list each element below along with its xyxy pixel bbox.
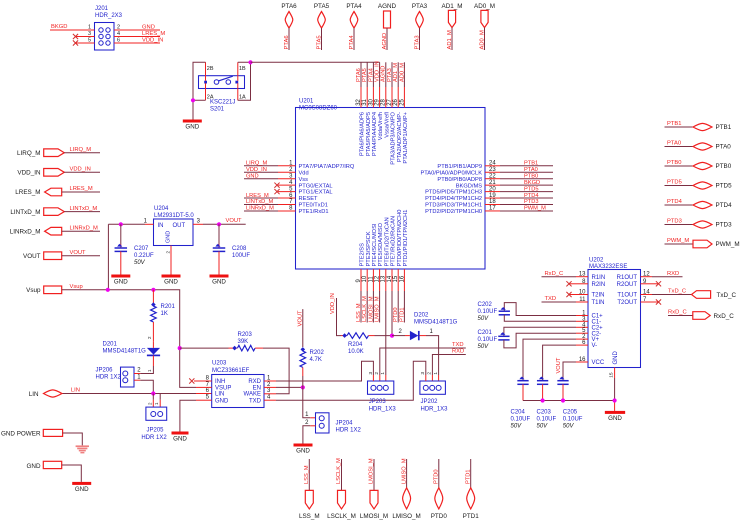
svg-text:Vssa/Vrefl: Vssa/Vrefl: [384, 112, 390, 138]
svg-text:PTE1/RxD1: PTE1/RxD1: [299, 209, 329, 215]
svg-text:HDR_1X3: HDR_1X3: [421, 406, 449, 412]
svg-text:U202: U202: [589, 258, 604, 264]
capacitor C208 100UF: [213, 224, 251, 274]
svg-text:VOUT: VOUT: [226, 218, 243, 224]
U202 left pins: [576, 272, 605, 366]
svg-text:C208: C208: [232, 246, 247, 252]
wire LRES_M from J201 pin 4: [114, 31, 165, 37]
svg-text:LRES_M: LRES_M: [70, 186, 93, 192]
wire/pin U201 top pin 32 net PTA6: [356, 62, 366, 156]
svg-text:WAKE: WAKE: [244, 392, 261, 398]
svg-text:PTD1/PID1/TPM2CH1: PTD1/PID1/TPM2CH1: [403, 210, 409, 267]
svg-text:GND: GND: [608, 415, 622, 422]
svg-text:GND: GND: [212, 279, 226, 286]
svg-text:AD1_M: AD1_M: [393, 63, 399, 82]
svg-text:15: 15: [393, 275, 399, 282]
port flag AD0_M (top): [474, 3, 495, 50]
wire LIN flag to U203 LIN pin: [62, 393, 212, 395]
wire/pin U201 top pin 26 net AD1_M: [393, 62, 403, 162]
svg-text:PTA0: PTA0: [524, 167, 538, 173]
svg-text:PTD1: PTD1: [463, 513, 480, 520]
svg-text:PTA4/PIA4/ADP4: PTA4/PIA4/ADP4: [372, 112, 378, 156]
svg-text:MC9S08DZ60: MC9S08DZ60: [299, 106, 338, 112]
wire Vsup to U204 IN pin 1: [108, 218, 153, 289]
svg-text:1K: 1K: [161, 311, 168, 317]
port flag PTD1 (bottom): [463, 459, 480, 520]
svg-text:LMOSI_M: LMOSI_M: [360, 513, 388, 520]
svg-text:RxD_C: RxD_C: [545, 271, 564, 277]
svg-text:D202: D202: [414, 313, 429, 319]
svg-text:LMISO_M: LMISO_M: [375, 296, 381, 322]
wire U203 TXD pin 4 to JP202 pin 3: [264, 361, 426, 400]
wire U203 RXD pin 1 to JP203 pin 3: [264, 361, 373, 381]
svg-text:C204: C204: [511, 410, 526, 416]
junction S201 right: [248, 60, 252, 64]
svg-text:GND: GND: [114, 279, 128, 286]
svg-text:PTA4: PTA4: [349, 35, 355, 50]
svg-text:Vdda/Vrefh: Vdda/Vrefh: [378, 112, 384, 140]
svg-text:MMSD4148T1G: MMSD4148T1G: [414, 320, 458, 326]
svg-text:VOUT: VOUT: [556, 357, 562, 373]
svg-text:PTB1/PIB1/ADP9: PTB1/PIB1/ADP9: [437, 164, 482, 170]
svg-text:Vss: Vss: [299, 177, 309, 183]
ground under U204: [162, 275, 181, 286]
svg-text:GND: GND: [142, 24, 155, 30]
svg-text:PTD5: PTD5: [667, 180, 682, 186]
svg-text:39K: 39K: [238, 339, 249, 345]
wire net TXD to U202 T1IN: [542, 296, 577, 302]
svg-text:LMISO_M: LMISO_M: [401, 458, 407, 484]
wire R203 to U203 WAKE pin 3: [263, 348, 289, 394]
junction VSUP / R203: [178, 346, 182, 350]
port flag AD1_M (top): [442, 3, 463, 50]
diode D202 MMSD4148T1G: [392, 313, 458, 341]
ground under S201: [183, 120, 202, 131]
svg-text:T1IN: T1IN: [592, 300, 605, 306]
wire U202 V+ to C204: [523, 339, 576, 380]
svg-text:PTA0: PTA0: [667, 141, 681, 147]
port flag PTD3 (right): [665, 219, 733, 229]
svg-text:TXD: TXD: [452, 342, 464, 348]
port flag PTA4 (top): [346, 3, 362, 50]
wire/pin U201 top pin 29 net VDD_IN: [375, 61, 385, 140]
svg-text:50V: 50V: [511, 424, 523, 430]
port flag AGND (top): [378, 3, 397, 50]
svg-text:50V: 50V: [134, 260, 146, 266]
resistor R204 10.0K: [341, 333, 392, 355]
connector J201 header 2x3: [95, 6, 123, 50]
junction LIN / JP206 / JP205: [151, 391, 155, 395]
svg-text:PTB1: PTB1: [716, 124, 732, 131]
wire/pin U201 bottom pin 13: [381, 217, 391, 291]
svg-text:PTA3/ADP3/ACMPO: PTA3/ADP3/ACMPO: [391, 111, 397, 164]
junction GND bus / U202 GND: [613, 398, 617, 402]
port flag LIN (left): [29, 387, 80, 397]
wire/pin U201 left pin 6 net LRES_M: [244, 193, 318, 202]
svg-text:V-: V-: [592, 343, 598, 349]
wire net TXD (to JP203 pin 2): [380, 342, 466, 381]
svg-text:PTD4: PTD4: [524, 193, 539, 199]
svg-text:AD0_M: AD0_M: [479, 30, 485, 50]
svg-text:MMSD4148T1G: MMSD4148T1G: [103, 349, 147, 355]
port flag LINRxD_M (left): [10, 225, 100, 235]
svg-text:PTE3/SPSCK: PTE3/SPSCK: [366, 231, 372, 266]
ground under U203: [172, 432, 189, 443]
svg-text:R201: R201: [161, 304, 176, 310]
svg-text:LIRQ_M: LIRQ_M: [17, 150, 40, 157]
svg-text:LSS_M: LSS_M: [304, 465, 310, 484]
svg-text:VDD_IN: VDD_IN: [142, 37, 163, 43]
wire U202 R1OUT net RXD: [652, 271, 683, 277]
svg-text:U201: U201: [299, 99, 314, 105]
diode D201 MMSD4148T1G: [103, 341, 161, 372]
wire/pin U201 bottom pin 15 net PTD0: [393, 210, 403, 323]
svg-text:LMISO_M: LMISO_M: [392, 513, 420, 520]
port flag PTD5 (right): [665, 180, 733, 190]
ground under GND flag: [72, 482, 91, 493]
U202 right pins: [617, 272, 652, 306]
svg-text:PWM_M: PWM_M: [524, 206, 546, 212]
no-connect X on U202 R2OUT: [652, 281, 661, 286]
svg-text:PTG1/EXTAL: PTG1/EXTAL: [299, 190, 333, 196]
svg-text:18: 18: [489, 199, 496, 205]
svg-text:PWM_M: PWM_M: [667, 238, 689, 244]
svg-text:TxD_C: TxD_C: [668, 288, 686, 294]
wire/pin U201 right pin 19 net PTD4: [425, 193, 553, 202]
svg-text:0.10UF: 0.10UF: [511, 417, 531, 423]
wire S201 to VDD_IN column of U201: [251, 61, 380, 63]
port flag VDD_IN (left): [17, 167, 100, 177]
svg-text:PTA6: PTA6: [284, 35, 290, 49]
svg-text:PTD3: PTD3: [716, 222, 733, 229]
wire Vsup rail: [62, 290, 180, 348]
port flag RxD_C (right): [693, 312, 734, 320]
svg-text:10: 10: [579, 290, 586, 296]
svg-text:1: 1: [88, 25, 91, 31]
svg-text:PTA3: PTA3: [414, 35, 420, 49]
wire/pin U201 bottom pin 9 net LSS_M: [356, 243, 366, 323]
svg-text:PTD4/PID4/TPM1CH2: PTD4/PID4/TPM1CH2: [425, 196, 482, 202]
svg-text:AD1_M: AD1_M: [447, 30, 453, 50]
svg-text:OUT: OUT: [173, 223, 186, 229]
svg-text:PTD0/PID0/TPM2CH0: PTD0/PID0/TPM2CH0: [397, 210, 403, 267]
resistor R203 39K: [180, 332, 263, 351]
svg-text:PTE4/SCL/MOSI: PTE4/SCL/MOSI: [372, 223, 378, 266]
junction R204 / D202 anode / U201 pin 14: [390, 334, 394, 338]
svg-text:LSCLK_M: LSCLK_M: [336, 458, 342, 484]
svg-text:GND: GND: [27, 463, 41, 470]
wire/pin U201 top pin 27 net PTA3: [387, 62, 397, 164]
svg-text:AD0_M: AD0_M: [399, 63, 405, 82]
svg-text:GND: GND: [166, 231, 172, 243]
svg-text:4.7K: 4.7K: [310, 357, 322, 363]
svg-text:1: 1: [433, 372, 439, 375]
wire/pin U201 right pin 21 net BKGD: [456, 180, 553, 189]
svg-text:BKGD/MS: BKGD/MS: [456, 183, 482, 189]
wire/pin U201 bottom pin 12 net LMISO_M: [375, 222, 385, 322]
svg-text:PTE7/RxD2/RxCAN: PTE7/RxD2/RxCAN: [391, 216, 397, 267]
svg-text:JP206: JP206: [96, 368, 114, 374]
svg-text:AGND: AGND: [378, 3, 397, 10]
svg-text:LIN: LIN: [29, 391, 39, 398]
svg-text:PTD3: PTD3: [667, 219, 682, 225]
wire GND from J201 pin 2: [114, 24, 160, 30]
wire net RxD_C flag stub: [668, 309, 693, 315]
svg-text:C207: C207: [134, 246, 149, 252]
svg-text:T2OUT: T2OUT: [617, 300, 637, 306]
svg-text:32: 32: [356, 98, 362, 105]
svg-text:0.10UF: 0.10UF: [537, 417, 557, 423]
svg-text:TXD: TXD: [545, 296, 557, 302]
junction C203 bus: [541, 398, 545, 402]
svg-text:1A: 1A: [239, 94, 246, 100]
svg-text:LRES_M: LRES_M: [15, 189, 40, 196]
svg-text:C203: C203: [537, 410, 552, 416]
svg-text:PTB0/PIB0/ADP8: PTB0/PIB0/ADP8: [437, 177, 482, 183]
svg-text:26: 26: [393, 98, 399, 105]
junction Vsup / U204 riser: [106, 288, 110, 292]
svg-text:GND: GND: [613, 351, 619, 365]
svg-text:PTE2/SS: PTE2/SS: [360, 243, 366, 267]
svg-text:PTA6: PTA6: [281, 3, 297, 10]
svg-text:14: 14: [643, 290, 650, 296]
svg-text:LINTxD_M: LINTxD_M: [10, 209, 40, 216]
svg-text:PTD1: PTD1: [399, 307, 405, 322]
svg-text:PTA3: PTA3: [387, 68, 393, 82]
wire U202 VCC net VOUT to C205: [556, 357, 576, 380]
svg-text:RxD_C: RxD_C: [714, 313, 735, 320]
svg-text:HDR 1X2: HDR 1X2: [141, 435, 167, 441]
svg-text:LIRQ_M: LIRQ_M: [246, 161, 267, 167]
wire JP206 pin 1 to LIN net: [140, 380, 153, 393]
svg-text:VDD_IN: VDD_IN: [246, 167, 267, 173]
wire JP204 pin 2 to ground: [303, 426, 316, 444]
wire/pin U201 right pin 22 net PTB0: [437, 173, 553, 182]
no-connect X on U203 INH pin 8: [189, 378, 212, 383]
wire S201 right loop: [238, 62, 251, 100]
svg-text:10.0K: 10.0K: [348, 349, 364, 355]
svg-text:VOUT: VOUT: [298, 310, 304, 327]
svg-text:HDR_2X3: HDR_2X3: [95, 13, 123, 19]
wire/pin U201 right pin 24 net PTB1: [437, 161, 553, 170]
svg-text:16: 16: [579, 357, 586, 363]
wire/pin U201 bottom pin 10 net LSCLK_M: [362, 231, 372, 322]
port flag LINTxD_M (left): [10, 206, 100, 216]
svg-text:PTA1/ADP1/ACMP+: PTA1/ADP1/ACMP+: [403, 111, 409, 163]
resistor R201 1K: [147, 290, 175, 342]
svg-text:LIRQ_M: LIRQ_M: [70, 147, 92, 153]
junction VOUT / C208: [217, 222, 221, 226]
port flag PTB0 (right): [665, 160, 732, 170]
ic U201 MC9S08DZ60: [296, 99, 486, 270]
svg-text:VOUT: VOUT: [23, 253, 41, 260]
wire U203 GND pin 5 to ground: [180, 400, 212, 431]
svg-text:C205: C205: [563, 410, 578, 416]
svg-text:PTA0: PTA0: [716, 144, 732, 151]
svg-text:HDR 1X2: HDR 1X2: [336, 428, 362, 434]
svg-text:VSUP: VSUP: [215, 386, 231, 392]
port flag LMISO_M (bottom): [392, 458, 420, 520]
svg-text:LRES_M: LRES_M: [142, 31, 165, 37]
wire VDD_IN from J201 pin 6: [114, 37, 163, 43]
capacitor C203 0.10UF 50V: [537, 377, 557, 430]
svg-text:R2OUT: R2OUT: [617, 282, 638, 288]
capacitor C205 0.10UF 50V: [557, 377, 582, 430]
svg-text:PTD5: PTD5: [524, 186, 539, 192]
svg-text:LINTxD_M: LINTxD_M: [70, 206, 98, 212]
svg-text:1: 1: [380, 372, 386, 375]
svg-text:3: 3: [420, 372, 426, 375]
wire capacitor ground bus: [523, 400, 615, 402]
svg-text:50V: 50V: [563, 424, 575, 430]
J201 pin numbers: [88, 25, 120, 44]
svg-text:LMOSI_M: LMOSI_M: [369, 458, 375, 484]
capacitor C207 0.22UF 50V: [115, 224, 154, 274]
svg-text:R203: R203: [238, 332, 253, 338]
wire D201 cathode to JP206 pin 2: [140, 366, 153, 374]
connector JP205 HDR 1X2: [141, 407, 167, 441]
svg-text:LIN: LIN: [215, 392, 224, 398]
svg-text:J201: J201: [95, 6, 109, 12]
svg-text:PTD1: PTD1: [465, 469, 471, 484]
no-connect X on U202 T2IN: [566, 292, 576, 297]
svg-text:PTE5/SDA/MISO: PTE5/SDA/MISO: [378, 222, 384, 266]
svg-text:PTD4: PTD4: [716, 202, 733, 209]
port flag PTB1 (right): [665, 121, 732, 131]
wire/pin U201 right pin 23 net PTA0: [420, 167, 553, 176]
svg-text:PTA3: PTA3: [412, 3, 428, 10]
connector JP204 HDR 1X2: [305, 412, 361, 434]
svg-text:PTB0: PTB0: [667, 160, 682, 166]
connector JP203 HDR_1X3: [368, 372, 397, 413]
svg-text:13: 13: [579, 272, 586, 278]
svg-text:2: 2: [427, 372, 433, 375]
port flag PTA0 (right): [665, 141, 732, 151]
svg-text:15: 15: [608, 372, 614, 378]
svg-text:16: 16: [399, 275, 405, 282]
svg-text:RXD: RXD: [248, 379, 261, 385]
svg-text:12: 12: [375, 275, 381, 282]
svg-text:Vsup: Vsup: [70, 284, 83, 290]
wire U202 V- to C203: [543, 345, 576, 380]
svg-text:D201: D201: [103, 342, 118, 348]
svg-text:19: 19: [489, 193, 496, 199]
wire net RxD_C to U202 R1IN: [542, 271, 577, 277]
svg-text:30: 30: [368, 98, 374, 105]
svg-text:3: 3: [368, 372, 374, 375]
wire/pin U201 right pin 17 net PWM_M: [425, 206, 553, 215]
svg-text:PTG0/EXTAL: PTG0/EXTAL: [299, 183, 333, 189]
svg-text:LMOSI_M: LMOSI_M: [368, 296, 374, 322]
svg-text:C201: C201: [478, 330, 493, 336]
junction U204 input / C207: [119, 222, 123, 226]
svg-text:U204: U204: [154, 206, 169, 212]
svg-text:HDR_1X3: HDR_1X3: [369, 406, 397, 412]
regulator U204 LM2931DT-5.0: [154, 206, 195, 246]
no-connect X on U202 T2OUT: [652, 299, 661, 304]
ground under C208: [210, 275, 229, 286]
svg-text:JP204: JP204: [336, 421, 354, 427]
svg-text:29: 29: [375, 98, 381, 105]
svg-text:GND: GND: [185, 124, 199, 131]
svg-text:T1OUT: T1OUT: [617, 293, 637, 299]
svg-text:T2IN: T2IN: [592, 293, 605, 299]
svg-text:C202: C202: [478, 302, 493, 308]
svg-text:HDR 1X2: HDR 1X2: [96, 375, 122, 381]
svg-text:PTD5/PID5/TPM1CH3: PTD5/PID5/TPM1CH3: [425, 190, 482, 196]
wire/pin U201 top pin 25 net AD0_M: [399, 62, 409, 163]
power ground symbol (stepped): [76, 445, 89, 453]
svg-text:JP203: JP203: [369, 399, 387, 405]
svg-text:R204: R204: [348, 342, 363, 348]
svg-text:LSS_M: LSS_M: [299, 513, 320, 520]
svg-text:VDD_IN: VDD_IN: [17, 170, 41, 177]
svg-text:PTD2/PID2/TPM1CH0: PTD2/PID2/TPM1CH0: [425, 209, 482, 215]
svg-text:PTA5: PTA5: [314, 3, 330, 10]
ground under JP204: [294, 444, 313, 455]
svg-text:24: 24: [489, 161, 496, 167]
wire S201 left loop to GND: [193, 62, 206, 119]
wire VSUP net to U203 pin 7: [180, 348, 212, 387]
svg-text:RXD: RXD: [452, 348, 464, 354]
svg-text:PTA7/PIA7/ADP7/IRQ: PTA7/PIA7/ADP7/IRQ: [299, 164, 355, 170]
svg-text:50V: 50V: [478, 316, 490, 322]
wire/pin U201 right pin 20 net PTD5: [425, 186, 553, 195]
svg-text:TxD_C: TxD_C: [717, 292, 737, 299]
svg-text:VDD_IN: VDD_IN: [70, 167, 91, 173]
svg-text:PTE0/TxD1: PTE0/TxD1: [299, 203, 328, 209]
svg-text:KSC221J: KSC221J: [210, 100, 235, 106]
svg-text:0.10UF: 0.10UF: [478, 337, 498, 343]
wire/pin U201 left pin 1 net LIRQ_M: [244, 161, 355, 170]
connector JP206 HDR 1X2: [96, 367, 142, 387]
svg-text:BKGD: BKGD: [51, 24, 67, 30]
wire/pin U201 bottom pin 11 net LMOSI_M: [368, 223, 378, 322]
svg-text:PTD3/PID3/TPM1CH1: PTD3/PID3/TPM1CH1: [425, 203, 482, 209]
connector JP202 HDR_1X3: [420, 372, 448, 413]
svg-text:0.22UF: 0.22UF: [134, 253, 154, 259]
svg-text:VDD_IN: VDD_IN: [375, 61, 381, 82]
no-connect X on J201 pin 5: [73, 40, 95, 45]
port flag LIRQ_M (left): [17, 147, 100, 157]
svg-text:100UF: 100UF: [232, 253, 250, 259]
svg-text:PTA5: PTA5: [316, 35, 322, 49]
svg-text:LM2931DT-5.0: LM2931DT-5.0: [154, 213, 194, 219]
svg-text:AGND: AGND: [382, 33, 388, 50]
junction EN / R202 / JP204: [301, 385, 305, 389]
wire LIN to JP205 pin 1: [154, 394, 160, 408]
port flag LSS_M (bottom): [299, 459, 320, 520]
port flag PTA3 (top): [412, 3, 428, 50]
svg-text:R2IN: R2IN: [592, 282, 606, 288]
wire/pin U201 left pin 5 no-connect: [274, 186, 332, 195]
svg-text:PTB1: PTB1: [524, 161, 538, 167]
svg-text:S201: S201: [210, 107, 225, 113]
svg-text:LRES_M: LRES_M: [246, 193, 269, 199]
svg-text:12: 12: [643, 272, 650, 278]
svg-text:10: 10: [362, 275, 368, 282]
svg-text:AD0_M: AD0_M: [474, 3, 495, 10]
port flag LMOSI_M (bottom): [360, 458, 388, 520]
wire/pin U201 left pin 7 net LINTxD_M: [244, 199, 328, 208]
svg-text:VDD_IN: VDD_IN: [330, 293, 336, 314]
svg-text:RESET: RESET: [299, 196, 318, 202]
svg-text:0.10UF: 0.10UF: [563, 417, 583, 423]
ground under C207: [111, 275, 130, 286]
switch S201 KSC221J: [199, 62, 247, 112]
svg-text:PTD4: PTD4: [667, 199, 683, 205]
wire D202 cathode to JP202 pin 1: [426, 336, 439, 381]
